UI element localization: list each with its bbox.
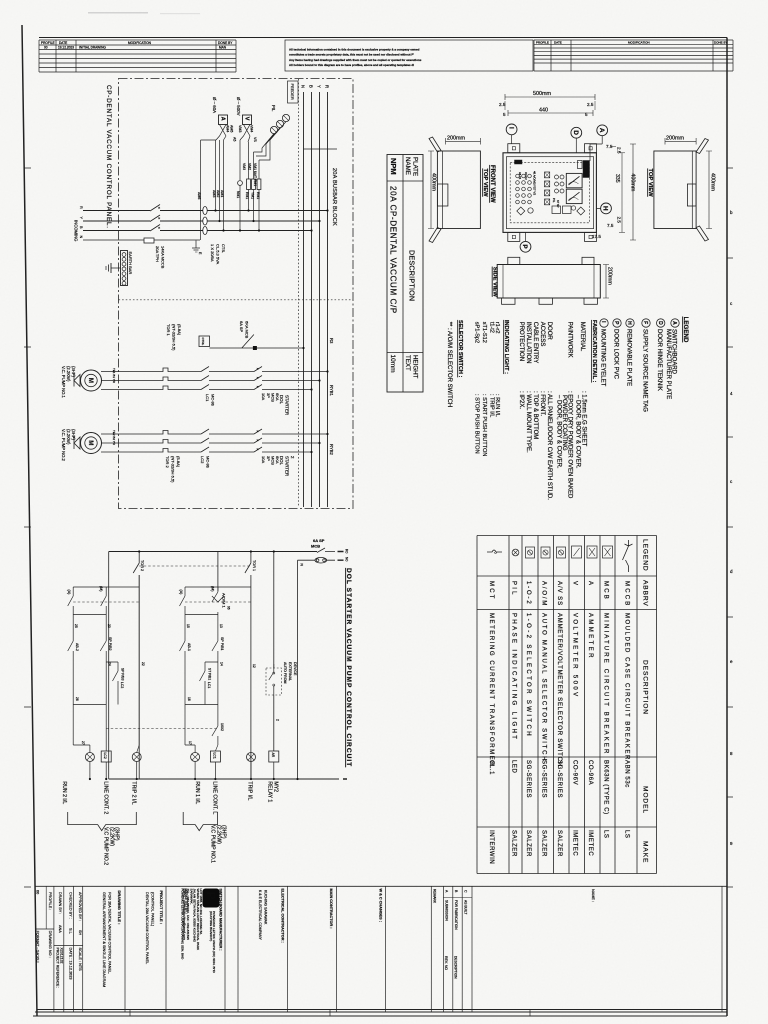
svg-text:MAN: MAN	[219, 46, 227, 50]
svg-text:NAME :: NAME :	[591, 889, 595, 902]
svg-text:200mm: 200mm	[447, 136, 465, 142]
svg-text:ELECTRICAL CONTRACTOR :: ELECTRICAL CONTRACTOR :	[281, 889, 285, 943]
svg-text:PIL: PIL	[552, 198, 556, 203]
svg-text:DRAWING NO :: DRAWING NO :	[48, 931, 52, 958]
svg-text:DONE BY: DONE BY	[218, 41, 233, 45]
svg-text:IMETEC: IMETEC	[587, 830, 593, 856]
svg-text:VOLTMETER 500V: VOLTMETER 500V	[572, 613, 578, 699]
svg-text:PIL: PIL	[271, 105, 276, 112]
svg-text:CL.1: CL.1	[488, 760, 494, 775]
svg-text:1/0/2: 1/0/2	[220, 723, 224, 731]
svg-text:MODIFICATION: MODIFICATION	[628, 40, 650, 44]
svg-text:TE1 B1 YR: TE1 B1 YR	[112, 368, 116, 384]
svg-text:AS BUILT: AS BUILT	[464, 900, 468, 914]
svg-text:1-O-2 SELECTOR SWITCH: 1-O-2 SELECTOR SWITCH	[525, 613, 531, 738]
svg-text:– DOOR, BODY & COVER.: – DOOR, BODY & COVER.	[575, 395, 581, 469]
svg-text:Y: Y	[317, 85, 322, 88]
svg-text:V: V	[244, 117, 250, 121]
svg-text:22: 22	[141, 662, 145, 666]
svg-text:SCALE : NTS: SCALE : NTS	[78, 948, 82, 972]
svg-text:V.C. PUMP NO.2: V.C. PUMP NO.2	[61, 429, 66, 462]
svg-text:2.5: 2.5	[499, 102, 506, 107]
svg-text:ACCESS: ACCESS	[539, 322, 545, 347]
svg-text:MCT: MCT	[488, 581, 494, 601]
svg-text:sT1-S12: sT1-S12	[481, 322, 487, 343]
svg-text:SG-SERIES: SG-SERIES	[556, 760, 562, 798]
svg-text:P: P	[204, 892, 218, 900]
svg-text:DESCRIPTION: DESCRIPTION	[408, 250, 417, 301]
svg-text:: START PUSH BUTTON: : START PUSH BUTTON	[481, 394, 487, 456]
svg-text:ST P/B1: ST P/B1	[208, 668, 212, 680]
svg-text:DONE BY: DONE BY	[714, 40, 728, 44]
svg-text:13: 13	[219, 624, 223, 628]
svg-text:PROTECTION: PROTECTION	[518, 322, 524, 361]
svg-text:AR: AR	[271, 753, 275, 758]
svg-text:SP P/B1: SP P/B1	[220, 637, 224, 651]
svg-text:: FRONT.: : FRONT.	[539, 391, 545, 416]
svg-text:ABN 53c: ABN 53c	[624, 760, 630, 788]
svg-text:CTRL: CTRL	[201, 338, 205, 346]
svg-text:12: 12	[252, 664, 256, 668]
svg-text:VS: VS	[253, 137, 257, 142]
svg-text:MCB: MCB	[271, 393, 276, 402]
svg-text:FORMAT - GA10LI: FORMAT - GA10LI	[36, 931, 40, 963]
svg-text:BK63N (TYPE C): BK63N (TYPE C)	[603, 760, 609, 815]
svg-text:NM1: NM1	[236, 191, 240, 198]
svg-text:×: ×	[257, 376, 259, 380]
svg-text:14: 14	[220, 662, 224, 666]
svg-text:DOL: DOL	[279, 456, 284, 466]
svg-text:RM1: RM1	[245, 192, 249, 199]
svg-text:DATE: DATE	[554, 40, 562, 44]
svg-text:O3 O2: O3 O2	[524, 172, 528, 180]
svg-text:H: H	[626, 321, 632, 325]
svg-text:3P: 3P	[266, 456, 271, 461]
svg-text:A/O/M 1: A/O/M 1	[222, 593, 227, 608]
svg-text:(3HP): (3HP)	[71, 429, 76, 441]
svg-text:: TOP & BOTTOM: : TOP & BOTTOM	[532, 391, 538, 439]
svg-text:440: 440	[539, 108, 548, 114]
svg-text:(A): (A)	[179, 590, 183, 595]
svg-text:EXTERNAL: EXTERNAL	[288, 662, 292, 681]
svg-text:MINIATURE CIRCUIT BREAKER: MINIATURE CIRCUIT BREAKER	[603, 613, 609, 756]
svg-text:N: N	[79, 236, 83, 239]
svg-text:** : A/O/M SELECTOR SWITCH: ** : A/O/M SELECTOR SWITCH	[446, 322, 452, 408]
svg-text:B: B	[309, 85, 314, 88]
svg-text:CL.5.3 5VA: CL.5.3 5VA	[216, 244, 221, 264]
svg-text:: IP2X.: : IP2X.	[518, 391, 524, 409]
svg-text:1 X 20/5A: 1 X 20/5A	[210, 244, 215, 262]
svg-text:00: 00	[44, 46, 48, 50]
svg-text:6A SP: 6A SP	[239, 321, 244, 332]
svg-text:FOR FABRICATION: FOR FABRICATION	[454, 900, 458, 930]
svg-text:MY2: MY2	[273, 781, 279, 792]
svg-text:15: 15	[186, 624, 190, 628]
svg-text:TOR 2: TOR 2	[140, 560, 144, 571]
svg-text:LINE CONT. L: LINE CONT. L	[212, 781, 218, 814]
svg-text:17: 17	[188, 741, 192, 745]
svg-text:PROJECT TITLE :: PROJECT TITLE :	[159, 891, 164, 925]
svg-text:VM4: VM4	[250, 125, 254, 132]
svg-text:×: ×	[257, 439, 259, 443]
svg-text:RYB2: RYB2	[329, 444, 334, 456]
svg-text:PROJECT REFERENCE :: PROJECT REFERENCE :	[56, 948, 60, 989]
svg-text:DOOR LOCK PVC: DOOR LOCK PVC	[612, 329, 618, 380]
svg-text:All technical information cont: All technical information contained in t…	[289, 48, 420, 52]
svg-text:AB-1: AB-1	[187, 643, 191, 651]
svg-text:AM3: AM3	[212, 190, 216, 197]
svg-text:AM5: AM5	[230, 125, 234, 132]
svg-text:3P: 3P	[266, 393, 271, 398]
svg-text:INSTALLATION: INSTALLATION	[525, 322, 531, 364]
svg-text:MATERIAL: MATERIAL	[579, 322, 585, 352]
svg-text:(2.2KW): (2.2KW)	[66, 429, 71, 445]
svg-text:: TRIP I/L: : TRIP I/L	[489, 394, 495, 417]
svg-text:200mm: 200mm	[607, 267, 613, 285]
svg-text:(NT-32/3H 6.5): (NT-32/3H 6.5)	[172, 324, 177, 351]
svg-text:DATE: DATE	[59, 41, 67, 45]
svg-text:M: M	[87, 378, 93, 383]
svg-text:H: H	[602, 206, 609, 211]
svg-text:AM4: AM4	[226, 125, 230, 132]
svg-text:S.L: S.L	[69, 928, 73, 934]
svg-text:MCCB: MCCB	[624, 581, 630, 607]
svg-text:I: I	[507, 127, 514, 129]
svg-text:26: 26	[75, 697, 79, 701]
svg-text:14KA MCCB: 14KA MCCB	[161, 246, 166, 269]
svg-text:LEGEND: LEGEND	[682, 317, 689, 343]
svg-text:ST SP: ST SP	[556, 200, 560, 208]
svg-text:PLATE: PLATE	[412, 157, 419, 176]
svg-text:A5: A5	[233, 137, 237, 141]
svg-text:M: M	[87, 440, 93, 445]
svg-text:DENTAL 20A VACUUM CONTROL PANE: DENTAL 20A VACUUM CONTROL PANEL	[145, 892, 149, 964]
svg-text:DESCRIPTION: DESCRIPTION	[642, 660, 649, 715]
svg-text:F: F	[642, 321, 648, 324]
svg-text:MANUFACTURER PLATE: MANUFACTURER PLATE	[665, 329, 671, 399]
svg-text:DATE : 19.12.2023: DATE : 19.12.2023	[69, 948, 73, 980]
svg-text:RUN 1 I/L: RUN 1 I/L	[194, 781, 200, 804]
svg-text:FRONT VIEW: FRONT VIEW	[489, 165, 495, 203]
svg-text:MCB: MCB	[311, 544, 320, 549]
svg-text:CP-DENTAL VACCUM CONTROL PA: CP-DENTAL VACCUM CONTROL PANEL.	[105, 85, 112, 229]
svg-text:IMETEC: IMETEC	[572, 830, 578, 856]
svg-text:DOOR: DOOR	[546, 322, 552, 341]
svg-text:TOP VIEW: TOP VIEW	[482, 169, 488, 198]
svg-text:17.5: 17.5	[592, 234, 601, 239]
svg-text:48 A/O/M1/YO7 VS: 48 A/O/M1/YO7 VS	[533, 171, 537, 195]
svg-text:RELAY 1: RELAY 1	[267, 781, 273, 802]
svg-text:: ALL PANEL/DOOR C/W EARTH ST: : ALL PANEL/DOOR C/W EARTH STUD.	[546, 391, 552, 500]
svg-text:2.5: 2.5	[587, 102, 594, 107]
svg-text:PAINTWORK: PAINTWORK	[567, 322, 573, 358]
svg-text:×: ×	[257, 448, 259, 452]
svg-text:500mm: 500mm	[533, 91, 551, 97]
svg-text:ANA: ANA	[58, 925, 62, 933]
svg-text:AB-2: AB-2	[75, 643, 79, 651]
svg-text:KUCHING SARAWAK: KUCHING SARAWAK	[264, 890, 268, 925]
svg-text:– DOOR, BODY & COVER.: – DOOR, BODY & COVER.	[556, 395, 562, 469]
svg-text:SALZER: SALZER	[525, 830, 531, 857]
svg-text:DEVICE: DEVICE	[293, 662, 297, 676]
svg-text:R: R	[79, 206, 83, 209]
svg-text:INCOMING: INCOMING	[74, 220, 79, 241]
svg-text:A: A	[671, 321, 677, 325]
svg-text:10A: 10A	[261, 393, 266, 400]
svg-text:SALZER: SALZER	[511, 830, 517, 857]
svg-text:(5-8A): (5-8A)	[176, 456, 181, 468]
svg-text:VM3: VM3	[238, 125, 242, 132]
svg-text:(A): (A)	[67, 590, 71, 595]
svg-text:D: D	[572, 130, 579, 135]
svg-text:DRAWING TITLE :: DRAWING TITLE :	[117, 891, 122, 925]
svg-text:DRAWN BY :: DRAWN BY :	[58, 892, 62, 914]
svg-text:AM6: AM6	[197, 192, 201, 199]
svg-text:R3: R3	[329, 338, 334, 344]
svg-text:16: 16	[187, 697, 191, 701]
svg-text:6A SP: 6A SP	[313, 538, 325, 543]
svg-text:(3HP): (3HP)	[71, 366, 76, 378]
svg-text:200mm: 200mm	[666, 136, 684, 142]
svg-text:INITIAL DRAWING: INITIAL DRAWING	[79, 46, 106, 50]
svg-text:POWERKO LETRIK USAHA (SARAWAK): POWERKO LETRIK USAHA (SARAWAK) SDN. BHD	[181, 889, 185, 961]
svg-text:LED: LED	[511, 760, 517, 774]
svg-text:t1-t2: t1-t2	[489, 322, 495, 333]
svg-text:V.C PUMP NO.2: V.C PUMP NO.2	[103, 827, 109, 865]
svg-text:MAKE: MAKE	[642, 841, 649, 863]
svg-text:RM1: RM1	[256, 192, 260, 199]
svg-text:400mm: 400mm	[630, 173, 636, 191]
svg-text:VM2: VM2	[248, 163, 252, 170]
svg-text:6KA MCB: 6KA MCB	[245, 321, 250, 339]
svg-text:P: P	[521, 244, 528, 249]
svg-text:TOP VIEW: TOP VIEW	[647, 169, 653, 198]
svg-text:V.C PUMP NO.1: V.C PUMP NO.1	[210, 825, 216, 863]
svg-text:(CONTROL PANEL): (CONTROL PANEL)	[151, 892, 155, 927]
svg-text:MC-9b: MC-9b	[206, 456, 211, 469]
svg-text:SELECTOR SWITCH :: SELECTOR SWITCH :	[457, 320, 463, 378]
svg-text:AMMETER: AMMETER	[587, 613, 593, 660]
svg-text:RYB1: RYB1	[329, 385, 334, 397]
svg-text:N: N	[301, 85, 306, 88]
svg-text:27: 27	[81, 741, 85, 745]
svg-text:(KUCHING BRANCH): (KUCHING BRANCH)	[209, 911, 213, 941]
svg-text:SP P/B2: SP P/B2	[108, 637, 112, 651]
svg-text:LC2: LC2	[200, 456, 205, 464]
svg-text:STARTER: STARTER	[285, 456, 290, 476]
svg-text:×: ×	[257, 385, 259, 389]
svg-text:2.5: 2.5	[617, 217, 622, 224]
svg-text:TE2 B2 YR: TE2 B2 YR	[112, 430, 116, 446]
svg-text:AMMETER/VOLTMETER SELECTOR SWI: AMMETER/VOLTMETER SELECTOR SWITCH	[556, 613, 562, 767]
svg-text:INTERWIN: INTERWIN	[488, 830, 494, 864]
svg-text:A: A	[220, 117, 226, 121]
svg-text:(NT-32/3H 6.5): (NT-32/3H 6.5)	[171, 456, 176, 483]
svg-text:PROFILE :: PROFILE :	[48, 892, 52, 910]
svg-text:SG-SERIES: SG-SERIES	[541, 760, 547, 798]
svg-text:7.5: 7.5	[606, 144, 613, 149]
svg-text:: WALL MOUNT TYPE.: : WALL MOUNT TYPE.	[525, 391, 531, 453]
svg-text:PROFILE: PROFILE	[536, 40, 549, 44]
svg-text:CO-96V: CO-96V	[572, 760, 578, 785]
svg-text:: STOP PUSH BUTTON: : STOP PUSH BUTTON	[474, 394, 480, 454]
svg-text:SP P/B3: SP P/B3	[121, 668, 125, 681]
svg-text:2.5: 2.5	[617, 147, 622, 154]
svg-text:PHASE INDICATING LIGHT: PHASE INDICATING LIGHT	[511, 613, 517, 741]
svg-text:TRIP 2 I/L: TRIP 2 I/L	[131, 781, 137, 804]
svg-text:REV. NO: REV. NO	[444, 956, 448, 970]
svg-text:METERING CURRENT TRANSFORMER: METERING CURRENT TRANSFORMER	[488, 613, 494, 767]
svg-text:R: R	[325, 85, 330, 88]
svg-text:2: 2	[276, 719, 280, 721]
svg-text:LEGEND: LEGEND	[642, 539, 649, 572]
svg-text:AM1: AM1	[220, 190, 224, 197]
svg-text:(2.2KW): (2.2KW)	[215, 825, 221, 844]
svg-text:YM1: YM1	[251, 192, 255, 199]
svg-text:5: 5	[585, 112, 588, 117]
svg-text:20A BUSBAR BLOCK: 20A BUSBAR BLOCK	[331, 168, 337, 226]
svg-text:20A TPH: 20A TPH	[155, 246, 160, 262]
svg-text:MAIN CONTRACTOR :: MAIN CONTRACTOR :	[329, 889, 333, 929]
svg-text:W & C CHANGES :: W & C CHANGES :	[379, 889, 383, 923]
svg-text:STARTER: STARTER	[285, 395, 290, 415]
svg-text:TRIP I/L: TRIP I/L	[247, 781, 253, 800]
svg-text:×: ×	[257, 367, 259, 371]
svg-text:FEEDER: FEEDER	[290, 84, 295, 100]
svg-text:5: 5	[503, 112, 506, 117]
svg-text:(5-8A): (5-8A)	[177, 324, 182, 336]
svg-text:NPM: NPM	[389, 158, 398, 175]
svg-text:V.C. PUMP NO.1: V.C. PUMP NO.1	[61, 366, 66, 399]
svg-text:sP1-Sp2: sP1-Sp2	[474, 322, 480, 343]
svg-text:GENERAL ARRANGEMENT & SINGLE L: GENERAL ARRANGEMENT & SINGLE LINE DIAGRA…	[102, 892, 106, 987]
svg-text:DOL: DOL	[279, 395, 284, 405]
svg-text:N0: N0	[345, 557, 349, 561]
svg-text:FOR 20A DENTAL VACUUM CONTROL: FOR 20A DENTAL VACUUM CONTROL PANEL.	[108, 892, 112, 974]
svg-text:CHECKED BY :: CHECKED BY :	[69, 892, 73, 919]
svg-text:A: A	[598, 128, 605, 133]
svg-text:SH: SH	[78, 930, 82, 936]
svg-text:SUPPLY SOURCE NAME TAG: SUPPLY SOURCE NAME TAG	[641, 329, 647, 412]
svg-text:RUN 2 I/L: RUN 2 I/L	[61, 781, 67, 804]
svg-text:1-O-2: 1-O-2	[525, 581, 531, 606]
svg-text:SIDE VIEW: SIDE VIEW	[492, 267, 498, 297]
svg-text:25: 25	[74, 624, 78, 628]
svg-text:(M): (M)	[99, 586, 103, 591]
svg-text:MC-9b: MC-9b	[211, 394, 216, 407]
svg-text:EARTH BAR: EARTH BAR	[128, 252, 133, 275]
svg-text:Ø – 500V: Ø – 500V	[236, 97, 241, 116]
svg-text:NAME: NAME	[404, 157, 411, 175]
svg-text:HEIGHT: HEIGHT	[412, 355, 419, 379]
svg-text:10A: 10A	[261, 456, 266, 463]
svg-text:TOR 1: TOR 1	[166, 324, 171, 336]
svg-text:Any items having had drawings: Any items having had drawings supplied w…	[289, 58, 422, 62]
svg-text:(M): (M)	[211, 586, 215, 591]
svg-text:7.5: 7.5	[607, 223, 614, 228]
svg-text:INDICATING LIGHT :: INDICATING LIGHT :	[503, 320, 509, 374]
svg-text:DOOR HINGE TEKNIK: DOOR HINGE TEKNIK	[656, 329, 662, 391]
svg-text:LC1: LC1	[212, 753, 216, 759]
svg-text:(2.2KW): (2.2KW)	[66, 366, 71, 382]
svg-text:CO-96A: CO-96A	[587, 760, 593, 785]
svg-text:LC1: LC1	[207, 682, 211, 688]
svg-text:AM2: AM2	[216, 190, 220, 197]
svg-text:DOL STARTER VACUUM PUMP CONTRO: DOL STARTER VACUUM PUMP CONTROL CIRCUIT	[345, 568, 352, 767]
svg-text:V: V	[572, 581, 578, 587]
svg-text:K & E ELECTRICAL COMPANY: K & E ELECTRICAL COMPANY	[258, 890, 262, 940]
svg-text:TOR 2: TOR 2	[165, 456, 170, 468]
svg-text:(3HP): (3HP)	[221, 825, 227, 839]
svg-text:All holders bound to this diag: All holders bound to this diagram are to…	[289, 63, 414, 67]
svg-text:TEXT: TEXT	[404, 355, 411, 371]
svg-text:400mm: 400mm	[431, 173, 437, 191]
svg-text:MODIFICATION: MODIFICATION	[128, 41, 152, 45]
svg-text:LC2: LC2	[120, 682, 124, 688]
svg-text:FABRICATION DETAIL :: FABRICATION DETAIL :	[591, 320, 597, 383]
svg-text:MCB: MCB	[603, 581, 609, 601]
svg-text:X2312132: X2312132	[60, 948, 64, 964]
svg-text:(2.2KW): (2.2KW)	[108, 827, 114, 846]
svg-text:REMARK: REMARK	[433, 889, 437, 904]
svg-text:MOUNTING EYELET: MOUNTING EYELET	[599, 329, 605, 387]
svg-text:LS: LS	[624, 830, 630, 839]
svg-text:AUTO MANUAL SELECTOR SWITCH: AUTO MANUAL SELECTOR SWITCH	[541, 613, 547, 762]
svg-text:MODEL: MODEL	[642, 786, 649, 814]
svg-text:A/V SS: A/V SS	[556, 581, 562, 606]
svg-text:DESCRIPTION: DESCRIPTION	[454, 956, 458, 979]
svg-text:A8 O1: A8 O1	[518, 172, 522, 180]
svg-text:constitutes a trade secrets pr: constitutes a trade secrets proprietary …	[289, 53, 414, 57]
svg-text:AUTO FROM: AUTO FROM	[283, 662, 287, 684]
svg-text:LINE CONT. 2: LINE CONT. 2	[103, 781, 109, 814]
svg-text:400mm: 400mm	[710, 173, 716, 191]
svg-text:MCB: MCB	[271, 456, 276, 465]
svg-text:D: D	[657, 321, 663, 325]
svg-text:CABLE ENTRY: CABLE ENTRY	[532, 322, 538, 364]
svg-text:SALZER: SALZER	[556, 830, 562, 857]
svg-text:LC2: LC2	[103, 753, 107, 759]
svg-text:A: A	[587, 581, 593, 587]
svg-text:LC1: LC1	[205, 394, 210, 402]
svg-text:MOULDED CASE CIRCUIT BREAKER: MOULDED CASE CIRCUIT BREAKER	[624, 613, 630, 761]
svg-text:Ø – 60A: Ø – 60A	[212, 97, 217, 113]
svg-text:REMOVABLE PLATE: REMOVABLE PLATE	[625, 329, 631, 386]
svg-text:PROFILE: PROFILE	[41, 41, 55, 45]
svg-text:SALZER: SALZER	[541, 830, 547, 857]
svg-text:(3HP): (3HP)	[114, 827, 120, 841]
svg-text:19.12.2023: 19.12.2023	[58, 46, 74, 50]
svg-text:96: 96	[227, 606, 231, 610]
svg-text:SUBMISSION: SUBMISSION	[445, 900, 449, 921]
svg-text:LS: LS	[603, 830, 609, 839]
svg-text:ABBRV: ABBRV	[642, 580, 649, 607]
svg-text:10mm: 10mm	[389, 355, 396, 373]
svg-text:SG-SERIES: SG-SERIES	[525, 760, 531, 798]
svg-text:335: 335	[614, 174, 620, 183]
svg-text:APPROVED BY :: APPROVED BY :	[78, 892, 82, 921]
svg-text:VM1 6A/T RM1: VM1 6A/T RM1	[253, 163, 257, 186]
svg-text:A/O/M: A/O/M	[541, 581, 547, 607]
svg-text:23: 23	[107, 624, 111, 628]
svg-text:20A CP-DENTAL VACCUM C/P: 20A CP-DENTAL VACCUM C/P	[389, 186, 398, 314]
svg-text:VM3: VM3	[242, 163, 246, 170]
svg-text:TOR 1: TOR 1	[252, 560, 256, 571]
svg-text:00: 00	[36, 890, 40, 894]
svg-text:CTS.: CTS.	[221, 244, 226, 253]
svg-text:PIL: PIL	[511, 581, 517, 597]
svg-text:R0: R0	[345, 549, 349, 553]
